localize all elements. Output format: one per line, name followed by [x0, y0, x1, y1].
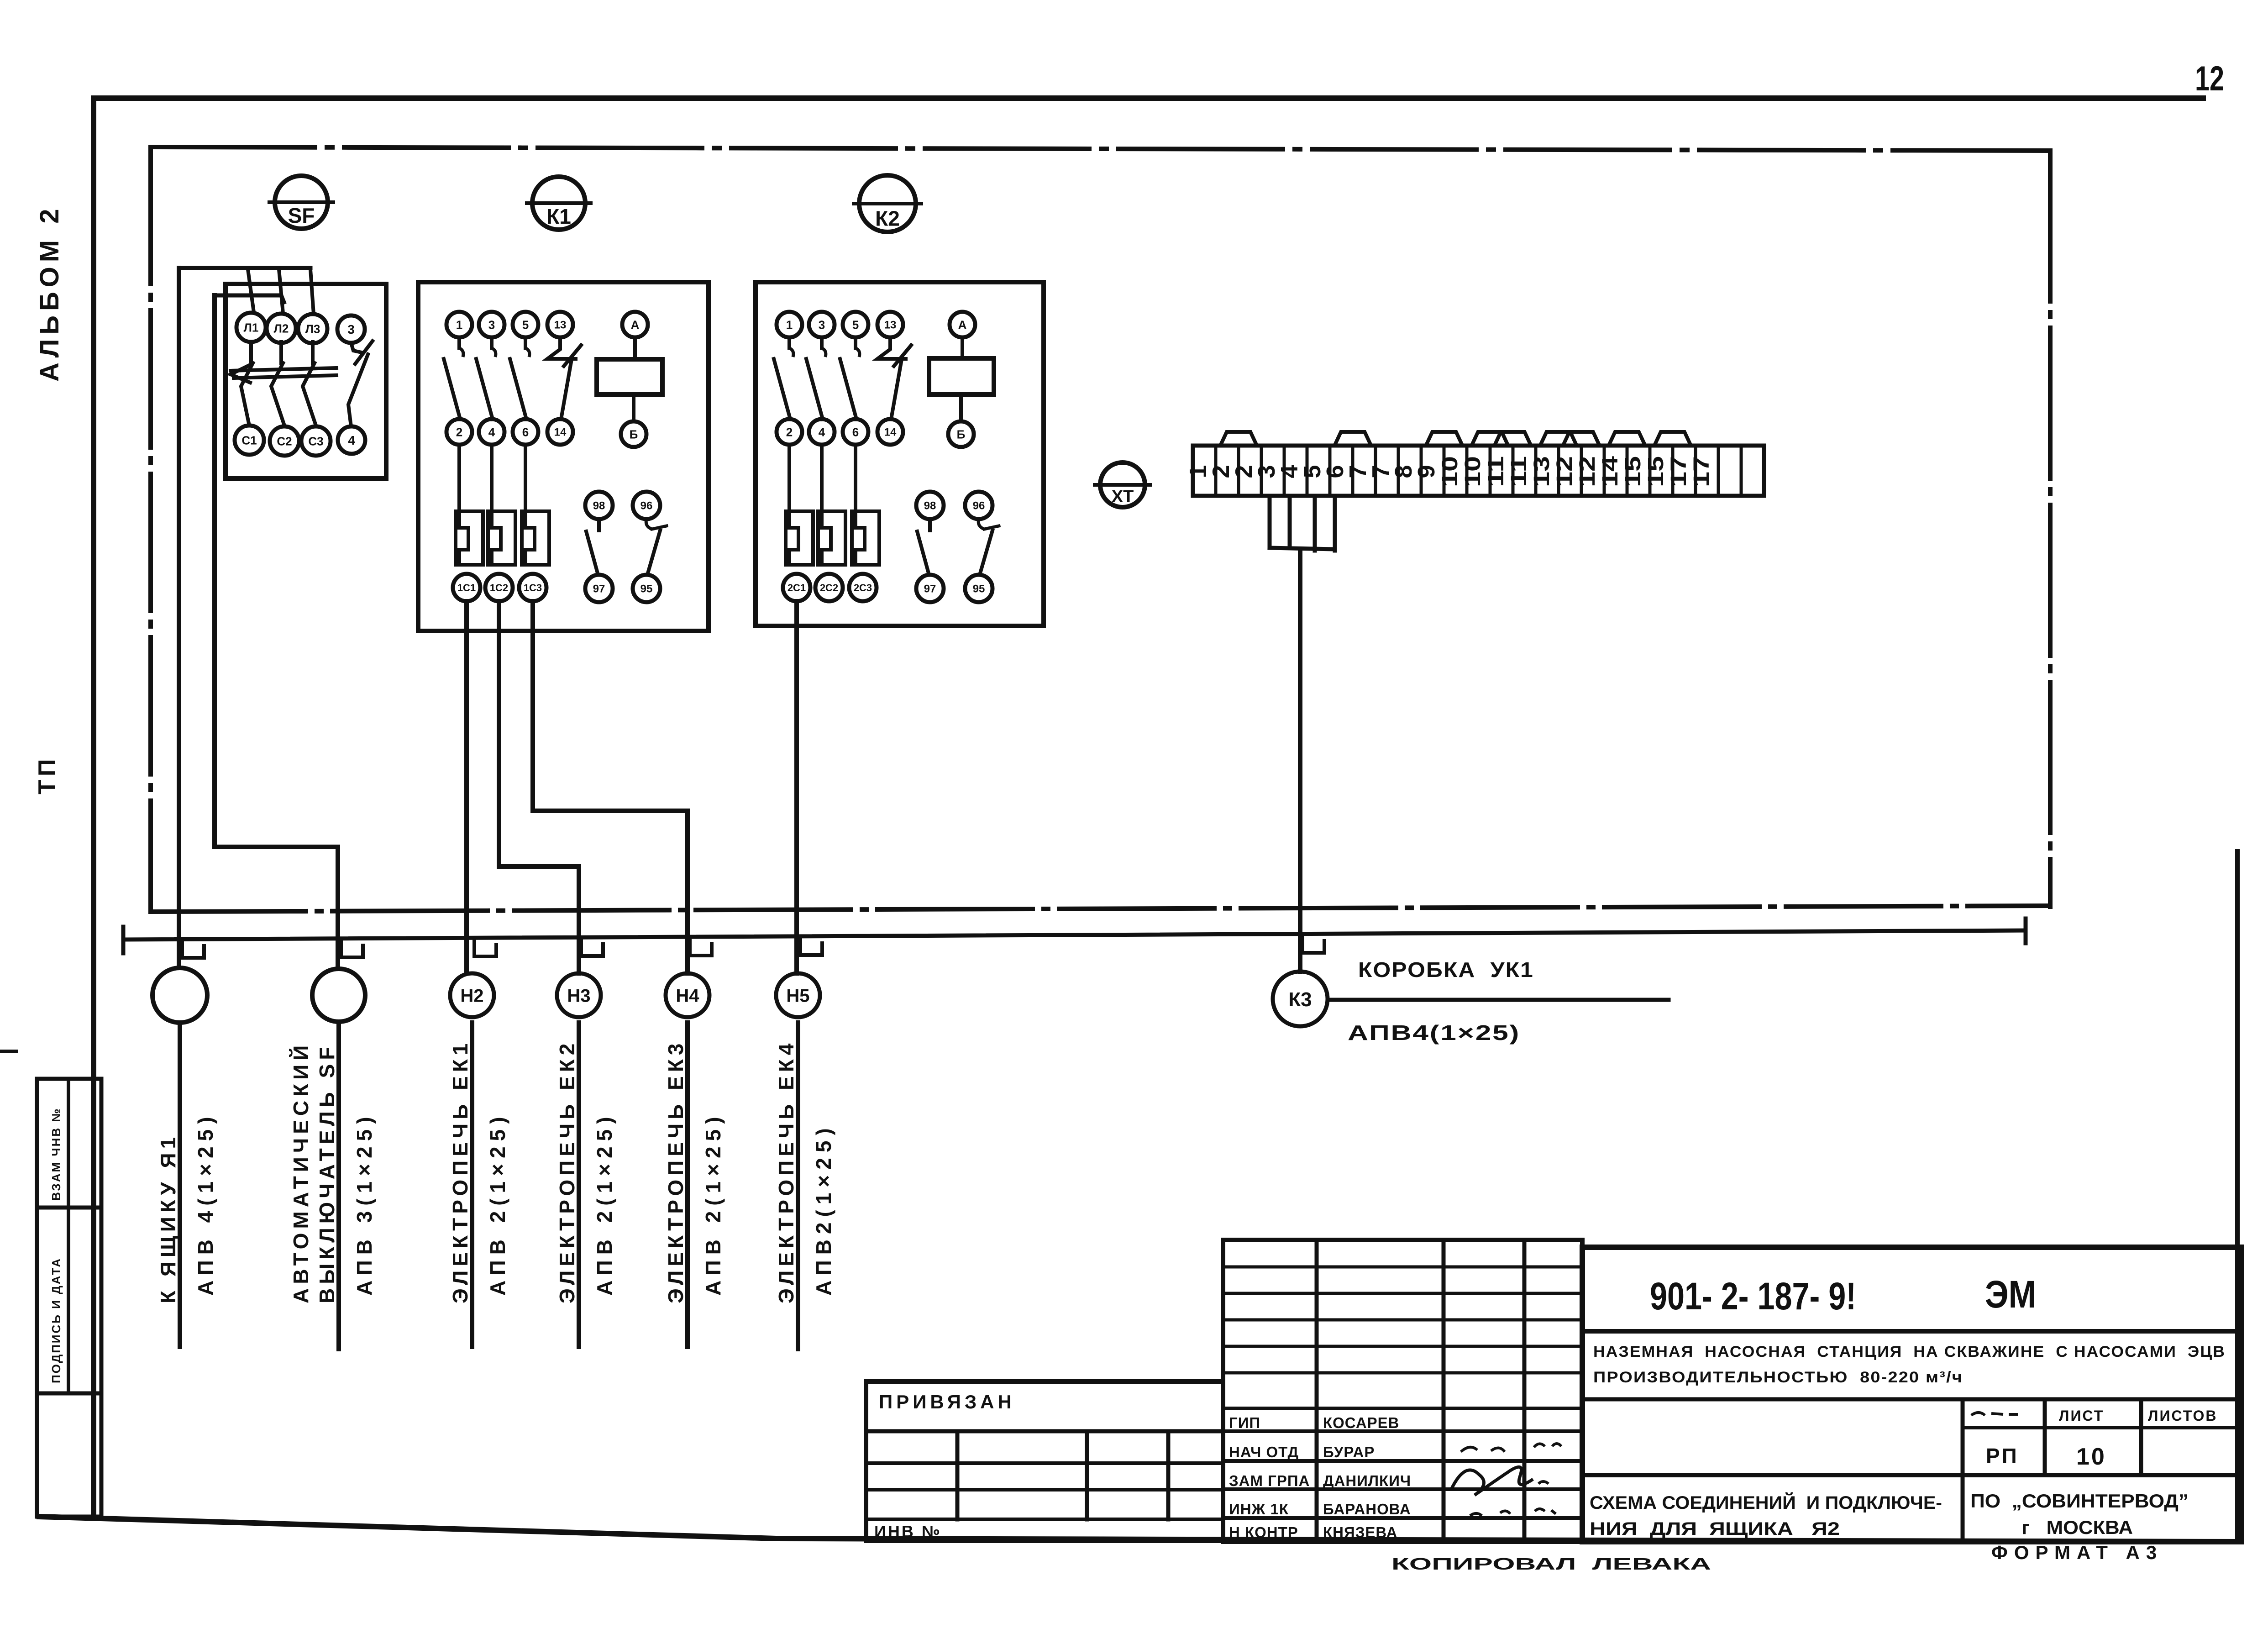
svg-text:1С1: 1С1	[457, 582, 476, 593]
wire+label: электропечь ЕК2	[555, 1023, 616, 1347]
K2 aux contact 96-95	[978, 519, 984, 529]
XT jumper bump at terminal boundary 2	[1220, 432, 1257, 446]
XT jumper bump at terminal boundary 16	[1540, 432, 1577, 446]
K2 thermal terminal 2С2	[815, 574, 843, 601]
K2 terminal 13	[877, 312, 903, 337]
svg-text:12: 12	[2195, 59, 2224, 98]
svg-text:ЭЛЕКТРОПЕЧЬ ЕК2: ЭЛЕКТРОПЕЧЬ ЕК2	[555, 1040, 579, 1303]
svg-text:ЭЛЕКТРОПЕЧЬ ЕК3: ЭЛЕКТРОПЕЧЬ ЕК3	[664, 1040, 688, 1303]
K2 main contact pole 3	[854, 337, 857, 348]
svg-text:10: 10	[2076, 1444, 2106, 1470]
cable circle (автоматический выключатель SF)	[312, 969, 365, 1022]
svg-text:2: 2	[786, 425, 793, 439]
svg-text:Л2: Л2	[274, 321, 289, 335]
K2 coil terminal Б	[948, 421, 974, 447]
K1 main contact pole 1	[457, 337, 461, 348]
SF terminal С1	[235, 425, 264, 455]
svg-text:СХЕМА СОЕДИНЕНИЙ И ПОДКЛЮЧЕ-: СХЕМА СОЕДИНЕНИЙ И ПОДКЛЮЧЕ-	[1590, 1492, 1942, 1513]
svg-text:1С3: 1С3	[524, 582, 542, 593]
K2 thermal terminal 2С1	[783, 574, 810, 601]
cable marking hook at x=1506	[690, 936, 712, 956]
K2 thermal element 2	[820, 445, 824, 511]
wire XT to К3	[1298, 549, 1302, 972]
svg-text:14: 14	[1598, 456, 1622, 487]
wire+label: электропечь ЕК1	[448, 1023, 509, 1347]
svg-text:НАЗЕМНАЯ НАСОСНАЯ СТАНЦИЯ Н: НАЗЕМНАЯ НАСОСНАЯ СТАНЦИЯ НА СКВАЖИНЕ С …	[1593, 1343, 2226, 1360]
svg-text:96: 96	[973, 500, 985, 512]
K1 thermal terminal 1С1	[453, 574, 480, 601]
svg-text:10: 10	[1461, 456, 1485, 487]
XT jumper bump at terminal boundary 19	[1609, 432, 1645, 446]
wires above SF box	[179, 266, 310, 270]
svg-text:ЭЛЕКТРОПЕЧЬ ЕК4: ЭЛЕКТРОПЕЧЬ ЕК4	[774, 1040, 798, 1303]
svg-text:13: 13	[554, 319, 567, 331]
wire K1 1С1 to Н2	[464, 601, 469, 973]
svg-text:3: 3	[819, 318, 825, 331]
SF terminal С3	[301, 426, 331, 456]
svg-text:9: 9	[1413, 465, 1440, 478]
K1 terminal 6	[513, 419, 538, 445]
wire K1 1С3 to Н4	[533, 601, 688, 973]
svg-text:11: 11	[1507, 456, 1531, 487]
SF link bar upper	[231, 368, 336, 371]
svg-text:2С1: 2С1	[787, 582, 806, 593]
svg-text:КНЯЗЕВА: КНЯЗЕВА	[1323, 1524, 1397, 1541]
cable circle Н2	[450, 973, 494, 1017]
svg-text:SF: SF	[288, 204, 315, 227]
svg-text:ВЫКЛЮЧАТЕЛЬ SF: ВЫКЛЮЧАТЕЛЬ SF	[315, 1043, 339, 1303]
svg-text:14: 14	[554, 426, 567, 439]
svg-text:13: 13	[1530, 456, 1554, 487]
svg-text:1: 1	[786, 318, 793, 331]
cable circle К3	[1273, 972, 1328, 1026]
cable bundle line	[123, 930, 2026, 940]
svg-text:А: А	[631, 318, 640, 331]
bottom border	[39, 1517, 2242, 1542]
left margin box ПОДПИСЬ И ДАТА	[37, 1208, 101, 1393]
svg-text:97: 97	[593, 583, 605, 595]
svg-text:Б: Б	[630, 427, 638, 441]
designator circle XT	[1093, 462, 1152, 507]
svg-text:ИНЖ 1К: ИНЖ 1К	[1229, 1501, 1289, 1518]
XT jumper bump at terminal boundary 13	[1472, 432, 1508, 446]
wire: cable from SF (second vertical with jog)	[215, 295, 338, 969]
svg-text:г МОСКВА: г МОСКВА	[2021, 1517, 2133, 1538]
svg-text:5: 5	[852, 318, 859, 331]
svg-text:Н3: Н3	[567, 986, 590, 1006]
svg-text:К3: К3	[1288, 988, 1312, 1011]
XT bottom jumper bracket	[1268, 496, 1272, 548]
K1 main contact pole 2	[490, 337, 493, 348]
svg-text:6: 6	[852, 425, 859, 439]
K2 terminal 95	[965, 575, 992, 602]
signature scribbles	[1452, 1467, 1533, 1495]
K1 main contact pole 3	[524, 337, 527, 348]
svg-text:3: 3	[347, 322, 355, 336]
terminal strip XT	[1193, 446, 1764, 496]
wire+label: электропечь ЕК3	[664, 1023, 725, 1347]
svg-text:17: 17	[1690, 456, 1714, 487]
K1 coil terminal А	[622, 312, 648, 337]
svg-text:2С2: 2С2	[820, 582, 838, 593]
wire+label: к ящику Я1 АПВ4(1х25)	[156, 1023, 217, 1347]
svg-text:10: 10	[1438, 456, 1462, 487]
svg-text:БАРАНОВА: БАРАНОВА	[1323, 1501, 1411, 1518]
svg-text:АПВ2(1×25): АПВ2(1×25)	[812, 1123, 835, 1296]
K1 terminal 98	[585, 492, 613, 519]
svg-text:АПВ 2(1×25): АПВ 2(1×25)	[593, 1111, 616, 1296]
SF terminal Л3	[298, 314, 327, 343]
svg-text:901- 2- 187- 9!: 901- 2- 187- 9!	[1650, 1275, 1856, 1318]
svg-text:4: 4	[488, 425, 495, 439]
svg-text:2С3: 2С3	[854, 582, 872, 593]
fold mark tick	[0, 1050, 16, 1053]
K2 terminal 4	[809, 419, 835, 445]
cable marking hook at x=742	[341, 938, 363, 957]
cable circle (к ящику Я1)	[152, 968, 207, 1023]
K2 terminal 3	[809, 312, 835, 337]
K1 coil	[597, 359, 662, 394]
K1 terminal 96	[633, 492, 660, 519]
svg-text:С2: С2	[277, 434, 292, 448]
svg-text:15: 15	[1644, 456, 1668, 487]
vline стадия column	[1961, 1399, 1965, 1542]
K1 aux contact 98-97	[597, 519, 601, 530]
K2 terminal 6	[843, 419, 868, 445]
SF terminal С2	[270, 426, 299, 456]
automatic breaker SF box	[226, 284, 386, 478]
svg-text:АПВ 4(1×25): АПВ 4(1×25)	[194, 1111, 217, 1296]
svg-text:12: 12	[1553, 456, 1577, 487]
K2 aux contact 13-14	[877, 337, 906, 359]
svg-text:Н4: Н4	[676, 986, 699, 1006]
K1 aux contact 96-95	[646, 519, 652, 529]
svg-text:97: 97	[924, 583, 936, 595]
contactor K2 box	[756, 282, 1044, 626]
title block: central stamp	[1223, 1240, 1582, 1542]
cable marking hook at x=1268	[581, 937, 603, 956]
svg-text:ПРОИЗВОДИТЕЛЬНОСТЬЮ 80-220 м³: ПРОИЗВОДИТЕЛЬНОСТЬЮ 80-220 м³/ч	[1593, 1369, 1963, 1386]
XT jumper bump at terminal boundary 7	[1334, 432, 1371, 446]
wire K1 1С2 to Н3	[499, 601, 579, 973]
svg-text:АПВ 3(1×25): АПВ 3(1×25)	[352, 1111, 376, 1296]
svg-text:ЭЛЕКТРОПЕЧЬ ЕК1: ЭЛЕКТРОПЕЧЬ ЕК1	[448, 1040, 472, 1303]
SF link bar lower	[234, 375, 336, 378]
XT jumper bump at terminal boundary 21	[1654, 432, 1691, 446]
SF trip arrow	[231, 365, 250, 383]
left tick of cable line	[121, 927, 126, 953]
designator circle K1	[525, 177, 593, 230]
svg-text:Л3: Л3	[305, 322, 320, 336]
svg-text:12: 12	[1575, 456, 1600, 487]
svg-text:95: 95	[640, 583, 653, 595]
svg-text:13: 13	[884, 319, 897, 331]
svg-text:КОСАРЕВ: КОСАРЕВ	[1323, 1414, 1400, 1431]
K2 terminal 5	[843, 312, 868, 337]
K1 terminal 3	[479, 312, 504, 337]
svg-text:ПО „СОВИНТЕРВОД”: ПО „СОВИНТЕРВОД”	[1970, 1490, 2189, 1512]
K2 thermal element 1	[787, 445, 791, 511]
svg-text:ЛИСТ: ЛИСТ	[2059, 1407, 2104, 1424]
K2 terminal 1	[777, 312, 802, 337]
svg-text:ФОРМАТ А3: ФОРМАТ А3	[1991, 1542, 2163, 1563]
svg-text:3: 3	[488, 318, 495, 331]
K1 terminal 5	[513, 312, 538, 337]
cable circle Н5	[776, 973, 820, 1017]
svg-text:АПВ 2(1×25): АПВ 2(1×25)	[486, 1111, 509, 1296]
K2 aux contact 98-97	[928, 519, 932, 530]
K2 terminal 14	[877, 419, 903, 445]
K2 thermal terminal 2С3	[849, 574, 877, 601]
svg-text:НИЯ ДЛЯ ЯЩИКА Я2: НИЯ ДЛЯ ЯЩИКА Я2	[1590, 1519, 1840, 1539]
svg-text:НАЧ ОТД: НАЧ ОТД	[1229, 1444, 1299, 1460]
svg-text:1С2: 1С2	[490, 582, 508, 593]
svg-text:15: 15	[1621, 456, 1645, 487]
К3 label КОРОБКА УК1 / АПВ4(1х25)	[1328, 998, 1669, 1002]
svg-text:96: 96	[640, 500, 653, 512]
svg-text:4: 4	[819, 425, 825, 439]
svg-text:5: 5	[522, 318, 529, 331]
svg-text:Л1: Л1	[244, 320, 259, 334]
K1 terminal 97	[585, 575, 613, 602]
svg-text:Н2: Н2	[460, 986, 483, 1006]
svg-text:6: 6	[522, 425, 529, 439]
svg-text:КОПИРОВАЛ ЛЕВАКА: КОПИРОВАЛ ЛЕВАКА	[1391, 1554, 1711, 1573]
svg-text:98: 98	[593, 500, 605, 512]
svg-text:ЛИСТОВ: ЛИСТОВ	[2148, 1407, 2218, 1424]
svg-text:ГИП: ГИП	[1229, 1414, 1260, 1431]
wire+label: автоматический выключатель SF	[289, 1023, 376, 1349]
left margin box ВЗАМ ИНВ №	[37, 1079, 101, 1208]
designator circle SF	[268, 176, 335, 229]
K2 terminal 98	[916, 492, 944, 519]
svg-text:С1: С1	[241, 433, 257, 447]
svg-text:2: 2	[456, 425, 462, 439]
K1 terminal 14	[547, 419, 573, 445]
SF terminal 4	[338, 426, 365, 454]
SF terminal Л1	[236, 313, 266, 342]
svg-text:95: 95	[973, 583, 985, 595]
svg-text:1: 1	[456, 318, 462, 331]
K2 main contact pole 1	[787, 337, 791, 348]
K2 terminal 2	[777, 419, 802, 445]
K1 terminal 2	[446, 419, 472, 445]
contactor K1 box	[418, 282, 709, 631]
svg-text:ИНВ №: ИНВ №	[874, 1522, 942, 1541]
SF breaker poles and trip bar	[249, 342, 253, 363]
cable circle Н3	[557, 973, 601, 1017]
svg-text:КОРОБКА УК1: КОРОБКА УК1	[1358, 958, 1534, 982]
svg-text:14: 14	[884, 426, 897, 439]
svg-text:А: А	[958, 318, 967, 331]
svg-text:Н5: Н5	[786, 986, 809, 1006]
K2 coil	[929, 358, 994, 394]
svg-text:АЛЬБОМ 2: АЛЬБОМ 2	[35, 205, 64, 382]
svg-text:ТП: ТП	[34, 756, 60, 794]
svg-text:С3: С3	[308, 434, 323, 448]
designator circle K2	[852, 175, 923, 232]
K2 coil terminal А	[950, 312, 975, 337]
svg-text:11: 11	[1484, 456, 1508, 487]
svg-text:Н КОНТР: Н КОНТР	[1229, 1524, 1298, 1541]
wire+label: электропечь ЕК4	[774, 1023, 835, 1349]
svg-text:Б: Б	[957, 427, 966, 441]
svg-text:98: 98	[924, 500, 936, 512]
K2 thermal element 3	[854, 445, 857, 511]
cabinet boundary (dash-dot box)	[151, 147, 2050, 151]
cable marking hook at x=1748	[800, 936, 822, 955]
K1 terminal 95	[633, 575, 660, 602]
SF aux contact 3-4	[351, 343, 362, 352]
K2 main contact pole 2	[820, 337, 824, 348]
XT jumper bump at terminal boundary 17	[1563, 432, 1600, 446]
XT jumper bump at terminal boundary 11	[1426, 432, 1462, 446]
svg-text:АПВ 2(1×25): АПВ 2(1×25)	[701, 1111, 725, 1296]
cable marking hook at x=1034	[474, 937, 496, 956]
K1 thermal terminal 1С2	[485, 574, 513, 601]
title block: right part	[1582, 1247, 2242, 1542]
svg-text:ДАНИЛКИЧ: ДАНИЛКИЧ	[1323, 1472, 1411, 1489]
svg-text:ЭМ: ЭМ	[1985, 1273, 2036, 1316]
K1 coil terminal Б	[621, 421, 646, 447]
K1 thermal element 2	[490, 445, 493, 511]
title block: left annex ПРИВЯЗАН	[866, 1381, 1223, 1541]
K1 terminal 4	[479, 419, 504, 445]
K1 thermal element 3	[524, 445, 527, 511]
K2 terminal 96	[965, 492, 992, 519]
K1 terminal 13	[547, 312, 573, 337]
K1 thermal terminal 1С3	[519, 574, 546, 601]
svg-text:4: 4	[348, 433, 355, 447]
svg-text:К1: К1	[546, 205, 571, 228]
K1 thermal element 1	[457, 445, 461, 511]
svg-text:К ЯЩИКУ Я1: К ЯЩИКУ Я1	[156, 1133, 180, 1303]
svg-text:ВЗАМ ЧНВ №: ВЗАМ ЧНВ №	[49, 1108, 63, 1201]
svg-text:К2: К2	[875, 206, 900, 230]
svg-text:АПВ4(1×25): АПВ4(1×25)	[1348, 1021, 1520, 1045]
svg-text:АВТОМАТИЧЕСКИЙ: АВТОМАТИЧЕСКИЙ	[289, 1041, 313, 1303]
wire K2 2С1 to Н5	[794, 601, 799, 973]
svg-text:ХТ: ХТ	[1112, 487, 1134, 506]
svg-text:ЗАМ ГРПА: ЗАМ ГРПА	[1229, 1472, 1310, 1489]
svg-text:ПРИВЯЗАН: ПРИВЯЗАН	[879, 1391, 1015, 1413]
svg-text:РП: РП	[1986, 1444, 2019, 1468]
XT jumper bump at terminal boundary 14	[1495, 432, 1531, 446]
K1 aux contact 13-14	[547, 337, 576, 359]
svg-text:ПОДПИСЬ И ДАТА: ПОДПИСЬ И ДАТА	[49, 1257, 63, 1383]
svg-text:БУРАР: БУРАР	[1323, 1444, 1375, 1460]
cable marking hook at x=394	[182, 939, 204, 958]
wire: cable to Я1 (left vertical)	[177, 268, 181, 968]
SF terminal 3	[337, 315, 365, 343]
K1 terminal 1	[446, 312, 472, 337]
page border frame	[94, 95, 2203, 101]
cable circle Н4	[666, 973, 709, 1017]
K2 terminal 97	[916, 575, 944, 602]
svg-text:17: 17	[1667, 456, 1691, 487]
SF terminal Л2	[267, 314, 296, 343]
cable marking hook at x=2848	[1302, 934, 1324, 953]
left margin box (blank)	[37, 1393, 101, 1517]
right tick of cable line	[2024, 919, 2028, 943]
